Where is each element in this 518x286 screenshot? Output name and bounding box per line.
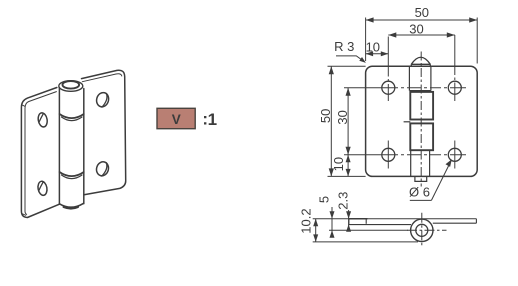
svg-text:5: 5	[317, 196, 332, 203]
right leaf hole lower (3D)	[95, 160, 110, 177]
dim 10.2 extension bottom	[313, 241, 418, 243]
left leaf hole upper (3D)	[37, 112, 48, 128]
front plate square outline	[366, 66, 478, 176]
svg-text:1: 1	[208, 110, 217, 129]
dim 10 left line	[347, 155, 349, 177]
barrel bottom arc (3D)	[59, 203, 83, 207]
barrel left tick mark	[404, 121, 411, 123]
svg-text:30: 30	[409, 21, 423, 36]
svg-text:Ø 6: Ø 6	[409, 184, 430, 199]
right leaf plate (3D) outer outline	[82, 70, 126, 194]
hole top-left	[382, 81, 395, 94]
centerline horizontal bottom holes	[344, 154, 466, 156]
dim 10.2 extension top	[313, 218, 349, 220]
dim 50 top line	[366, 19, 478, 21]
centerline vertical top-left hole	[387, 37, 389, 102]
left leaf corner bend marks (3D)	[22, 105, 26, 216]
dim 10.2 line	[315, 219, 317, 242]
pin top (3D)	[63, 81, 80, 89]
barrel bottom tab	[415, 176, 427, 181]
side view top leaf	[349, 218, 368, 220]
barrel front: lower thin section	[411, 150, 430, 176]
side view leaf step	[365, 219, 367, 224]
dim 30 top line	[388, 34, 455, 36]
dim 5 line	[331, 207, 333, 236]
dim R3 leader	[336, 56, 365, 62]
svg-text:30: 30	[335, 110, 350, 124]
dim 30 left line	[347, 88, 349, 155]
dimension texts side view	[298, 192, 350, 234]
knuckle ring 1 (3D)	[60, 114, 84, 121]
svg-text:V: V	[172, 112, 181, 127]
right leaf hole upper (3D)	[95, 91, 110, 108]
centerline horizontal top holes	[344, 87, 466, 89]
hinge barrel cylinder (3D)	[59, 88, 83, 205]
side view circle centerline vertical	[421, 213, 423, 248]
side view left leaf end cap	[348, 219, 350, 225]
svg-text:R 3: R 3	[334, 39, 354, 54]
centerline vertical bottom-right hole	[454, 141, 456, 169]
knuckle ring 2 (3D)	[60, 172, 84, 179]
dim 10 top line	[366, 53, 389, 55]
side view left leaf bottom edge	[349, 224, 411, 226]
dim 50 left extension top	[328, 65, 366, 67]
left leaf plate (3D) outer outline	[21, 88, 59, 218]
centerline vertical bottom-left hole	[387, 141, 389, 169]
barrel bottom thick band (3D)	[64, 207, 78, 209]
left leaf hole lower (3D)	[37, 181, 48, 197]
svg-text:10: 10	[366, 40, 380, 55]
barrel dome top	[411, 57, 430, 66]
side view right leaf end cap	[475, 219, 477, 224]
side view right leaf bottom edge	[433, 222, 477, 224]
dimension texts front view	[318, 5, 430, 199]
barrel front: upper thin section	[409, 66, 431, 90]
barrel bold knuckle box 2	[410, 123, 433, 150]
dim 50 top extension left	[365, 18, 367, 62]
centerline vertical through barrel	[420, 52, 422, 187]
side view pin hole circle	[416, 224, 428, 236]
scale color box	[157, 108, 195, 128]
barrel cap rim (3D)	[59, 81, 83, 92]
side view circle centerline horizontal	[407, 229, 447, 231]
barrel knuckle joint 1 with notches	[409, 91, 431, 93]
hole bottom-right	[448, 148, 461, 161]
dim dia6 leader	[431, 161, 451, 200]
svg-text:2.3: 2.3	[335, 192, 350, 210]
dim 50 left extension bottom	[328, 175, 366, 177]
barrel bold knuckle box 1	[410, 92, 433, 120]
svg-text:10.2: 10.2	[298, 208, 313, 233]
svg-text:10: 10	[331, 157, 346, 171]
dim 50 left line	[330, 66, 332, 176]
hole bottom-left	[382, 148, 395, 161]
centerline vertical top-right hole	[454, 35, 456, 101]
dim 50 top extension right	[476, 18, 478, 64]
dimension graphics front view	[328, 17, 478, 200]
dimension graphics side view	[313, 207, 418, 242]
side view barrel outer circle	[411, 219, 433, 241]
svg-text:50: 50	[318, 109, 333, 123]
right leaf thickness inner edge (3D)	[82, 74, 122, 82]
svg-text:50: 50	[415, 5, 429, 20]
dim 5 extension center	[329, 229, 408, 231]
hole top-right	[448, 81, 461, 94]
left leaf thickness inner edges (3D)	[25, 92, 56, 215]
dim 2.3 line	[348, 210, 350, 232]
